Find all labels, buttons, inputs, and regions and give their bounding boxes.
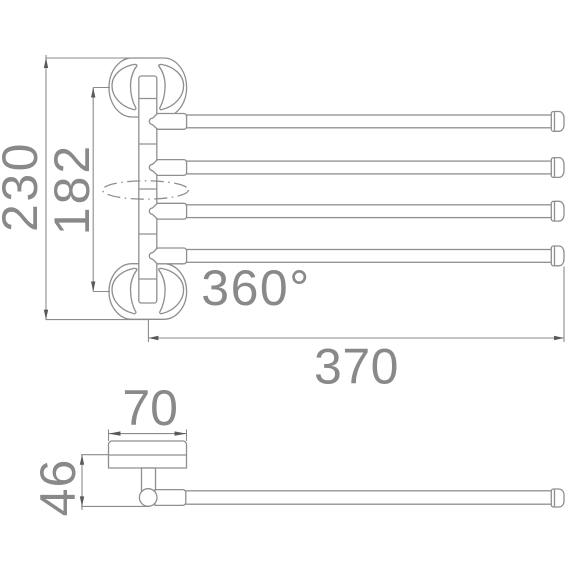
svg-text:46: 46 [30,459,86,517]
svg-text:230: 230 [0,141,48,232]
svg-text:182: 182 [44,143,100,235]
svg-text:370: 370 [314,339,399,395]
svg-text:70: 70 [122,380,178,436]
svg-text:360°: 360° [201,260,310,316]
